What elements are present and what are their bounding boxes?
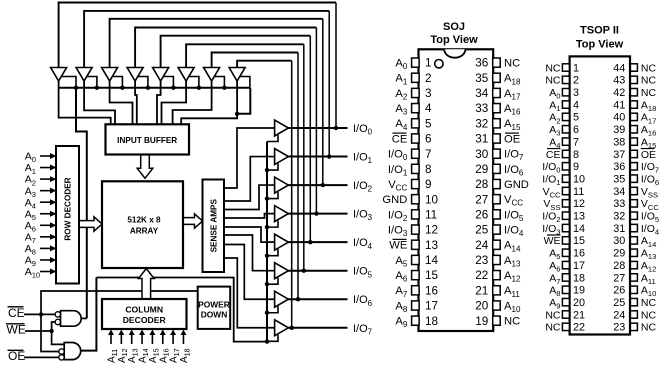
arrow array to sense amps — [183, 214, 203, 228]
net A1 input — [25, 162, 57, 176]
svg-text:9: 9 — [425, 178, 432, 191]
TSOP pin 10 I/O1 — [542, 173, 585, 187]
TSOP pin 15 WE — [544, 235, 585, 247]
wire feedback I/O2 top loop — [110, 19, 323, 185]
SOJ pin 13 WE — [389, 239, 438, 252]
svg-text:12: 12 — [425, 224, 438, 237]
junction dot I/O0 — [334, 126, 338, 130]
net A10 input — [25, 266, 57, 280]
svg-text:11: 11 — [573, 186, 584, 198]
wire enable tap output buffer B12 — [267, 221, 278, 228]
svg-text:19: 19 — [475, 315, 488, 328]
svg-text:24: 24 — [475, 239, 489, 252]
SOJ pin 25 I/O4 — [475, 224, 524, 238]
svg-text:2: 2 — [425, 72, 432, 85]
wire feedback I/O1 top loop — [84, 11, 329, 157]
svg-text:28: 28 — [613, 260, 625, 272]
input buffer B8 — [229, 68, 245, 82]
TSOP pin 4 A1 — [549, 99, 579, 113]
svg-text:14: 14 — [425, 254, 439, 267]
wire enable tap output buffer B13 — [267, 249, 278, 256]
block POWER DOWN — [198, 287, 231, 329]
SOJ pin 21 A11 — [475, 284, 520, 298]
svg-text:10: 10 — [425, 193, 439, 206]
svg-text:16: 16 — [573, 248, 585, 260]
svg-text:NC: NC — [641, 322, 657, 334]
svg-text:28: 28 — [475, 178, 488, 191]
svg-text:11: 11 — [425, 209, 437, 222]
wire enable tap buffer B5 — [164, 77, 174, 88]
arrow input buffer to array — [137, 155, 153, 179]
TSOP pin 6 A3 — [549, 124, 579, 138]
wire output-enable run — [96, 278, 267, 342]
input buffer B7 — [204, 68, 220, 82]
svg-text:44: 44 — [613, 62, 625, 74]
svg-text:35: 35 — [613, 173, 625, 185]
svg-text:OE: OE — [641, 149, 656, 161]
net A4 input — [25, 197, 57, 211]
wire sense amp to output buffer B16 — [224, 258, 275, 328]
svg-text:21: 21 — [573, 309, 585, 321]
TSOP pin 2 NC — [545, 75, 579, 87]
TSOP II package body — [570, 56, 630, 334]
TSOP pin 25 NC — [613, 297, 656, 309]
TSOP pin 40 A17 — [613, 112, 656, 126]
svg-text:30: 30 — [613, 235, 625, 247]
svg-text:WE: WE — [7, 323, 26, 337]
wire bus tap to gate G1 output — [76, 88, 87, 319]
svg-text:18: 18 — [573, 272, 585, 284]
svg-text:CE: CE — [8, 306, 25, 320]
net A11 input — [107, 330, 119, 364]
TSOP pin 19 A8 — [549, 285, 585, 299]
junction dot enable 5 — [265, 282, 269, 286]
wire I/O0 line — [288, 127, 347, 129]
TSOP pin 41 A18 — [613, 99, 656, 113]
net A0 input — [25, 151, 57, 165]
wire data drop B5 into input buffer — [157, 81, 161, 124]
junction bus dot 5 — [171, 86, 175, 90]
junction dot I/O1 — [327, 154, 331, 158]
svg-text:17: 17 — [573, 260, 585, 272]
wire data drop B1 into input buffer — [59, 81, 111, 124]
svg-text:DECODER: DECODER — [123, 315, 167, 325]
svg-text:3: 3 — [425, 87, 432, 100]
TSOP pin 44 NC — [613, 62, 656, 74]
svg-text:27: 27 — [613, 272, 625, 284]
svg-text:33: 33 — [613, 198, 625, 210]
svg-text:9: 9 — [573, 161, 579, 173]
TSOP pin 28 A12 — [613, 260, 656, 274]
net A6 input — [25, 220, 57, 234]
wire gate G2 output riser — [81, 278, 97, 351]
svg-text:ARRAY: ARRAY — [130, 227, 159, 236]
svg-text:6: 6 — [425, 133, 432, 146]
TSOP pin 3 A0 — [549, 87, 579, 101]
block SENSE AMPS — [203, 180, 225, 273]
wire sense amp to output buffer B11 — [224, 185, 275, 209]
svg-text:25: 25 — [475, 224, 489, 237]
TSOP pin 8 CE — [546, 149, 579, 161]
input buffer B5 — [153, 68, 169, 82]
SOJ pin 14 A5 — [395, 254, 438, 268]
wire feedback I/O7 top loop — [237, 61, 292, 328]
svg-text:NC: NC — [545, 309, 561, 321]
svg-text:22: 22 — [573, 322, 585, 334]
wire enable tap buffer B3 — [113, 77, 123, 88]
net I/O6 label — [353, 294, 373, 308]
SOJ pin 34 A17 — [475, 87, 521, 101]
TSOP pin 13 I/O2 — [542, 211, 585, 225]
wire I/O2 line — [288, 184, 347, 186]
wire I/O1 line — [288, 156, 347, 158]
svg-text:1: 1 — [573, 62, 579, 74]
wire enable tap output buffer B15 — [267, 306, 278, 313]
svg-text:GND: GND — [382, 194, 407, 206]
wire sense amp to output buffer B12 — [224, 214, 275, 218]
wire feedback I/O5 top loop — [186, 44, 304, 270]
svg-text:POWER: POWER — [198, 300, 230, 310]
svg-text:29: 29 — [613, 248, 625, 260]
wire enable tap output buffer B14 — [267, 278, 278, 285]
wire feedback I/O0 top loop — [59, 3, 336, 129]
net I/O4 label — [353, 237, 373, 251]
wire sense amp to output buffer B10 — [224, 157, 275, 201]
junction dot enable 6 — [265, 311, 269, 315]
wire data drop B3 into input buffer — [110, 81, 133, 124]
svg-text:29: 29 — [475, 163, 488, 176]
wire bus right end into input buffer — [237, 88, 250, 114]
SOJ pin 7 I/O0 — [388, 148, 432, 162]
output buffer B11 — [275, 177, 289, 193]
svg-text:42: 42 — [613, 87, 625, 99]
wire enable tap output buffer B11 — [267, 192, 278, 199]
SOJ pin 10 GND — [382, 193, 438, 206]
junction bus dot 3 — [120, 86, 124, 90]
TSOP pin 18 A7 — [549, 272, 585, 286]
svg-text:31: 31 — [475, 133, 488, 146]
arrow column decoder to array — [139, 269, 155, 300]
output buffer B16 — [275, 320, 289, 336]
net A14 input — [138, 330, 150, 364]
input buffer B1 — [51, 68, 67, 82]
wire data drop B6 into input buffer — [162, 81, 187, 124]
net WE label — [6, 323, 26, 337]
svg-text:NC: NC — [641, 87, 657, 99]
svg-text:NC: NC — [504, 58, 520, 70]
SOJ pin 29 I/O6 — [475, 163, 524, 177]
svg-text:COLUMN: COLUMN — [125, 304, 163, 314]
svg-text:OE: OE — [504, 133, 520, 145]
wire enable tap buffer B6 — [189, 77, 199, 88]
junction bus dot 6 — [197, 86, 201, 90]
svg-text:34: 34 — [613, 186, 625, 198]
wire enable tap output buffer B9 — [267, 135, 278, 142]
wire WE to G1 input — [52, 322, 55, 331]
SOJ pin 8 I/O1 — [388, 163, 432, 177]
junction dot enable 2 — [265, 196, 269, 200]
TSOP pin 21 NC — [545, 309, 585, 321]
wire data drop B7 into input buffer — [173, 81, 212, 124]
svg-text:22: 22 — [475, 269, 488, 282]
SOJ package title — [430, 21, 478, 46]
SOJ pin 6 CE — [392, 133, 432, 146]
net OE label — [8, 349, 26, 363]
wire CE input — [24, 313, 55, 315]
svg-text:TSOP II: TSOP II — [580, 24, 619, 36]
TSOP pin 11 VCC — [543, 186, 585, 200]
wire sense amp to output buffer B15 — [224, 245, 275, 300]
svg-text:26: 26 — [475, 209, 488, 222]
SOJ pin 3 A2 — [395, 87, 431, 101]
net A12 input — [117, 330, 129, 364]
svg-text:10: 10 — [573, 173, 585, 185]
input buffer B3 — [102, 68, 118, 82]
wire I/O3 line — [288, 213, 347, 215]
wire sense amp to output buffer B14 — [224, 235, 275, 271]
net I/O7 label — [353, 323, 372, 337]
SOJ pin 24 A14 — [475, 239, 521, 253]
SOJ pin 32 A15 — [475, 117, 521, 131]
wire feedback I/O3 top loop — [135, 28, 316, 214]
gate G2 (output control) — [59, 343, 81, 361]
SOJ pin 17 A8 — [395, 300, 438, 314]
junction bus dot 4 — [146, 86, 150, 90]
svg-text:Top View: Top View — [430, 34, 478, 46]
net A2 input — [25, 174, 57, 188]
SOJ pin 11 I/O2 — [388, 209, 437, 223]
svg-text:20: 20 — [475, 300, 489, 313]
junction dot I/O7 — [290, 326, 294, 330]
TSOP pin 24 NC — [613, 309, 656, 321]
svg-text:OE: OE — [8, 349, 25, 363]
SOJ pin 19 NC — [475, 315, 520, 328]
SOJ pin 20 A10 — [475, 300, 521, 314]
TSOP pin 43 NC — [613, 75, 656, 87]
net I/O0 label — [353, 123, 373, 137]
svg-text:3: 3 — [573, 87, 579, 99]
TSOP pin 5 A2 — [549, 112, 579, 126]
TSOP pin 17 A6 — [549, 260, 585, 274]
net A8 input — [25, 243, 57, 257]
net A18 input — [179, 330, 191, 364]
TSOP pin 30 A14 — [613, 235, 656, 249]
svg-text:NC: NC — [545, 62, 561, 74]
junction bus dot 1 — [74, 86, 78, 90]
TSOP pin 20 A9 — [549, 297, 585, 311]
svg-text:CE: CE — [546, 149, 561, 161]
junction dot CE — [39, 312, 43, 316]
svg-text:Top View: Top View — [576, 39, 624, 51]
SOJ package body — [419, 49, 494, 331]
block INPUT BUFFER — [106, 124, 190, 154]
wire WE input — [25, 330, 52, 332]
svg-text:26: 26 — [613, 285, 625, 297]
block 512K x 8 ARRAY — [102, 181, 183, 268]
wire enable tap output buffer B16 — [267, 335, 278, 342]
svg-text:36: 36 — [613, 161, 625, 173]
svg-text:43: 43 — [613, 75, 625, 87]
wire enable tap buffer B7 — [215, 77, 225, 88]
SOJ pin 9 VCC — [388, 178, 431, 192]
junction dot enable 1 — [265, 168, 269, 172]
wire enable tap output buffer B10 — [267, 164, 278, 171]
SOJ pin 22 A12 — [475, 269, 521, 283]
TSOP pin 9 I/O0 — [542, 161, 579, 175]
TSOP pin 34 VSS — [613, 186, 658, 200]
SOJ pin 15 A6 — [395, 269, 438, 283]
svg-text:SENSE AMPS: SENSE AMPS — [210, 198, 219, 252]
svg-text:20: 20 — [573, 297, 585, 309]
svg-text:5: 5 — [573, 112, 579, 124]
wire WE to G2 input — [52, 331, 65, 344]
net A17 input — [169, 330, 181, 364]
svg-text:35: 35 — [475, 72, 489, 85]
SOJ pin 12 I/O3 — [388, 224, 438, 238]
input buffer B4 — [127, 68, 143, 82]
svg-text:25: 25 — [613, 297, 625, 309]
svg-text:NC: NC — [545, 322, 561, 334]
TSOP pin 26 A10 — [613, 285, 656, 299]
TSOP pin 31 I/O4 — [613, 223, 659, 237]
svg-text:27: 27 — [475, 193, 488, 206]
junction dot I/O6 — [296, 297, 300, 301]
SOJ pin 18 A9 — [395, 315, 438, 329]
input buffer B2 — [76, 68, 92, 82]
junction dot bus end over drop — [235, 112, 239, 116]
wire gate G1 output — [81, 317, 87, 319]
SOJ pin 2 A1 — [395, 72, 431, 86]
net A5 input — [25, 208, 57, 222]
svg-text:NC: NC — [641, 297, 657, 309]
junction dot I/O5 — [302, 269, 306, 273]
wire I/O4 line — [288, 241, 347, 243]
svg-text:14: 14 — [573, 223, 585, 235]
TSOP pin 37 OE — [613, 149, 656, 161]
wire feedback I/O4 top loop — [161, 36, 311, 242]
output buffer B9 — [275, 120, 289, 136]
svg-text:DOWN: DOWN — [201, 310, 228, 320]
svg-text:GND: GND — [504, 179, 529, 191]
SOJ pin 23 A13 — [475, 254, 521, 268]
svg-text:8: 8 — [425, 163, 432, 176]
wire sense amp to output buffer B9 — [224, 128, 275, 188]
net A13 input — [127, 330, 139, 364]
output buffer B12 — [275, 206, 289, 222]
net I/O5 label — [353, 266, 373, 280]
svg-text:36: 36 — [475, 57, 488, 70]
output buffer B15 — [275, 291, 289, 307]
junction dot I/O4 — [308, 240, 312, 244]
svg-text:38: 38 — [613, 136, 625, 148]
wire OE input — [24, 356, 59, 358]
wire enable tap buffer B4 — [138, 77, 148, 88]
output buffer B14 — [275, 263, 289, 279]
svg-text:32: 32 — [613, 211, 625, 223]
wire enable tap buffer B1 — [62, 77, 76, 88]
SOJ pin 16 A7 — [395, 284, 438, 298]
net A16 input — [158, 330, 170, 364]
net A3 input — [25, 185, 57, 199]
svg-text:17: 17 — [425, 300, 438, 313]
SOJ pin 36 NC — [475, 57, 520, 70]
wire write-enable bus — [59, 87, 251, 89]
junction dot enable 7 — [265, 339, 269, 343]
svg-text:4: 4 — [425, 102, 432, 115]
TSOP pin 12 VSS — [543, 198, 585, 212]
TSOP pin 42 NC — [613, 87, 656, 99]
svg-text:13: 13 — [573, 211, 585, 223]
svg-text:15: 15 — [425, 269, 439, 282]
svg-text:13: 13 — [425, 239, 438, 252]
net I/O1 label — [353, 152, 373, 166]
svg-text:18: 18 — [425, 315, 438, 328]
svg-text:2: 2 — [573, 75, 579, 87]
wire I/O5 line — [288, 270, 347, 272]
wire data drop B8 into input buffer — [181, 81, 237, 124]
svg-text:SOJ: SOJ — [443, 21, 465, 33]
output buffer B13 — [275, 234, 289, 250]
SOJ pin 30 I/O7 — [475, 148, 524, 162]
svg-text:INPUT BUFFER: INPUT BUFFER — [117, 136, 177, 145]
SOJ pin 4 A3 — [395, 102, 432, 116]
wire enable tap buffer B8 — [240, 77, 250, 88]
net A15 input — [148, 330, 160, 364]
svg-text:19: 19 — [573, 285, 585, 297]
SOJ pin 5 A4 — [395, 117, 432, 131]
net I/O2 label — [353, 180, 372, 194]
svg-text:7: 7 — [425, 148, 432, 161]
svg-text:WE: WE — [389, 240, 407, 252]
SOJ pin 31 OE — [475, 133, 520, 146]
TSOP pin 23 NC — [613, 322, 656, 334]
junction bus dot 2 — [95, 86, 99, 90]
svg-text:1: 1 — [425, 57, 432, 70]
svg-text:NC: NC — [641, 75, 657, 87]
svg-text:23: 23 — [475, 254, 488, 267]
TSOP pin 29 A13 — [613, 248, 656, 262]
svg-text:21: 21 — [475, 284, 488, 297]
svg-text:41: 41 — [613, 99, 625, 111]
svg-text:NC: NC — [545, 75, 561, 87]
SOJ pin 1 A0 — [395, 57, 431, 71]
TSOP pin 7 A4 — [549, 136, 579, 150]
svg-text:ROW DECODER: ROW DECODER — [64, 177, 73, 240]
junction dot I/O2 — [321, 183, 325, 187]
TSOP pin 36 I/O7 — [613, 161, 659, 175]
svg-text:23: 23 — [613, 322, 625, 334]
svg-text:15: 15 — [573, 235, 585, 247]
input buffer B6 — [178, 68, 194, 82]
svg-text:4: 4 — [573, 99, 579, 111]
junction dot WE — [49, 329, 53, 333]
svg-text:30: 30 — [475, 148, 489, 161]
svg-text:7: 7 — [573, 136, 579, 148]
wire data drop B2 into input buffer — [84, 81, 115, 124]
svg-text:512K x 8: 512K x 8 — [127, 215, 161, 224]
svg-text:WE: WE — [544, 235, 561, 247]
svg-text:12: 12 — [573, 198, 585, 210]
SOJ pin 35 A18 — [475, 72, 521, 86]
wire enable tap buffer B2 — [87, 77, 97, 88]
svg-text:5: 5 — [425, 117, 432, 130]
svg-text:24: 24 — [613, 309, 625, 321]
wire I/O6 line — [288, 298, 347, 300]
junction dot enable 4 — [265, 253, 269, 257]
net I/O3 label — [353, 209, 373, 223]
wire I/O7 line — [288, 327, 347, 329]
svg-text:39: 39 — [613, 124, 625, 136]
